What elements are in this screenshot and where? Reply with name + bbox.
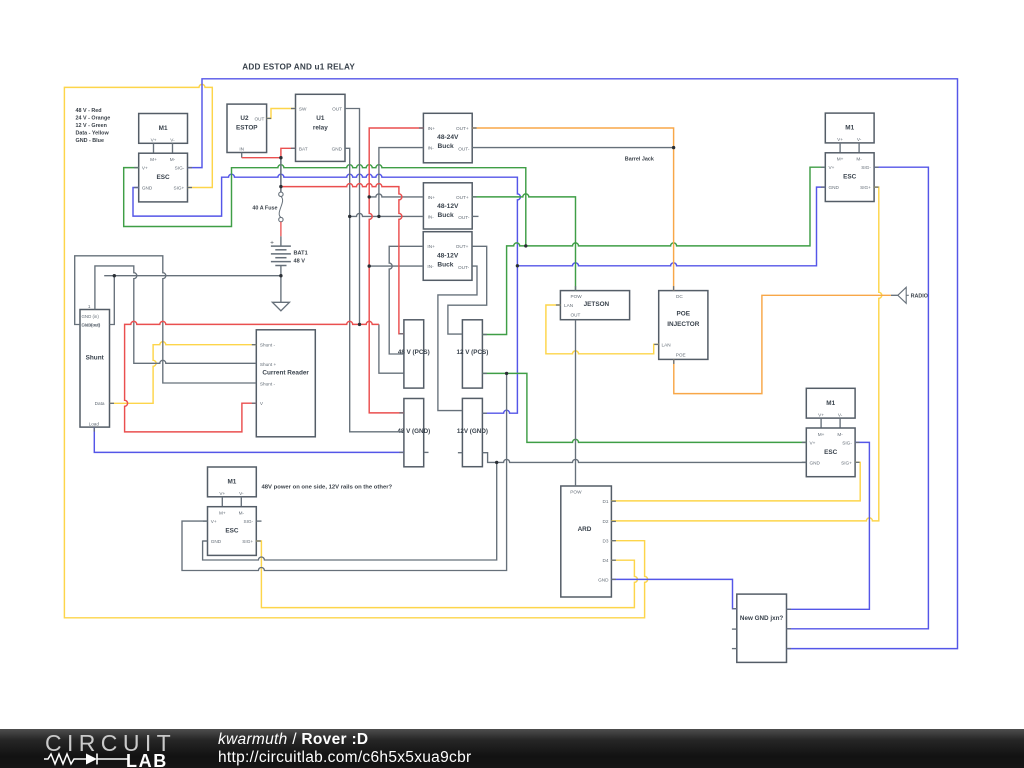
wire blue New GND jxn to ESC bottom-right SIG-: [787, 442, 870, 609]
svg-text:SIG-: SIG-: [861, 165, 871, 170]
svg-text:48-12V: 48-12V: [437, 203, 459, 210]
svg-text:V+: V+: [837, 137, 843, 142]
svg-text:SIG-: SIG-: [842, 440, 852, 445]
svg-text:40 A Fuse: 40 A Fuse: [252, 206, 277, 212]
svg-text:LAN: LAN: [564, 303, 573, 308]
svg-text:M+: M+: [837, 157, 844, 162]
wire U1 GND down to 48V GND strip: [345, 148, 404, 432]
svg-text:POW: POW: [570, 490, 582, 495]
svg-text:48-24V: 48-24V: [437, 134, 459, 141]
wire red U2 IN to U1 BAT: [242, 148, 296, 157]
CircuitLab logo: [45, 729, 225, 768]
stub New GND jxn left 3: [732, 648, 737, 650]
wire JETSON OUT to ARD POW: [575, 320, 577, 486]
wire buck2 IN- to 48V column: [369, 265, 423, 267]
svg-text:GND: GND: [598, 577, 609, 582]
wire red rail corner down to 48V PCS pin3: [379, 324, 404, 373]
shunt: [80, 310, 110, 428]
wire yellow ESC bottom-right SIG+ to ARD D1: [611, 462, 860, 501]
svg-text:GND - Blue: GND - Blue: [76, 138, 104, 144]
svg-text:M1: M1: [845, 125, 854, 132]
wire blue ESC1 GND main ground rail: [133, 174, 520, 266]
svg-text:Buck: Buck: [438, 212, 454, 219]
svg-text:GND: GND: [211, 539, 222, 544]
svg-text:48 V (PCS): 48 V (PCS): [398, 349, 430, 356]
svg-text:V+: V+: [142, 166, 148, 171]
wire 48-24V IN- to gnd column: [379, 148, 424, 217]
svg-text:IN-: IN-: [427, 264, 434, 269]
wire buck2 OUT+ to 12V PCS strip: [448, 246, 487, 334]
wire shunt right pin to battery rail: [110, 276, 115, 325]
wire U1 OUT down to 48V rail: [345, 109, 360, 325]
svg-text:OUT: OUT: [571, 312, 581, 317]
svg-text:M1: M1: [227, 479, 236, 486]
svg-text:OUT-: OUT-: [458, 146, 470, 151]
svg-text:Data(out): Data(out): [82, 322, 101, 327]
svg-text:IN-: IN-: [428, 146, 435, 151]
battery BAT1 48V: [280, 236, 282, 246]
svg-text:SIG+: SIG+: [242, 539, 253, 544]
svg-text:BAT1: BAT1: [294, 250, 308, 256]
svg-text:12 V (PCS): 12 V (PCS): [456, 349, 488, 356]
svg-text:OUT+: OUT+: [456, 244, 469, 249]
48V positive strip: [404, 320, 424, 388]
buck converter 48-12V #1: [423, 183, 472, 229]
svg-text:IN+: IN+: [428, 195, 436, 200]
wire fuse feed from battery dot: [280, 158, 282, 192]
wire orange POE out to RADIO: [674, 295, 891, 393]
wire 12V GND rail down to ESC bottom-left GND: [203, 462, 497, 560]
ESC M1 top-right: [825, 153, 874, 202]
svg-text:Buck: Buck: [437, 262, 453, 269]
svg-text:Data: Data: [95, 401, 105, 406]
svg-text:M-: M-: [239, 511, 245, 516]
svg-text:RADIO: RADIO: [911, 294, 928, 300]
ground symbol: [280, 276, 282, 303]
wire battery negative rail: [104, 275, 281, 277]
wire blue Shunt Load to 48V GND strip: [94, 427, 404, 452]
wire blue ESC1 SIG- top border to New GND jxn: [188, 79, 958, 649]
svg-text:V-: V-: [239, 491, 244, 496]
svg-text:V+: V+: [829, 165, 835, 170]
svg-text:OUT+: OUT+: [456, 126, 469, 131]
wire red 48-24V IN+ feed column: [369, 128, 423, 413]
ESC M1 bottom-right: [806, 428, 855, 477]
wire yellow ESC3 SIG+ to ARD D4: [256, 541, 637, 608]
ARD arduino: [561, 486, 612, 597]
svg-text:Current Reader: Current Reader: [262, 370, 309, 377]
svg-text:V-: V-: [857, 137, 862, 142]
ESTOP U2: [227, 104, 267, 152]
svg-text:Data - Yellow: Data - Yellow: [76, 131, 110, 137]
buck converter 48-12V #2: [423, 232, 472, 281]
svg-text:ESC: ESC: [225, 528, 239, 535]
svg-text:GND: GND: [810, 460, 821, 465]
svg-text:SIG+: SIG+: [860, 185, 871, 190]
12V ground strip: [462, 398, 482, 466]
svg-text:OUT-: OUT-: [458, 215, 470, 220]
M1 top-left motor leads: [154, 143, 173, 153]
stub 48V GND strip right: [424, 451, 429, 453]
svg-text:M1: M1: [826, 400, 835, 407]
POE injector: [659, 291, 708, 360]
svg-text:ESTOP: ESTOP: [236, 124, 258, 131]
svg-text:D1: D1: [603, 499, 609, 504]
svg-text:SIG-: SIG-: [243, 519, 253, 524]
svg-text:V+: V+: [219, 491, 225, 496]
svg-text:OUT: OUT: [255, 117, 265, 122]
component terminal stubs: [134, 167, 139, 169]
wire 48V row to buck1 IN+: [369, 194, 423, 197]
svg-text:relay: relay: [313, 124, 328, 131]
wire blue ground rail to 12V GND strip: [482, 266, 517, 413]
svg-text:+: +: [270, 240, 274, 247]
svg-text:M-: M-: [837, 432, 843, 437]
stub 12V GND strip left: [458, 452, 463, 454]
svg-text:D3: D3: [603, 539, 609, 544]
svg-text:M-: M-: [170, 157, 176, 162]
svg-text:ARD: ARD: [578, 526, 592, 533]
svg-text:M-: M-: [856, 157, 862, 162]
svg-text:M+: M+: [150, 157, 157, 162]
svg-text:D2: D2: [603, 519, 609, 524]
svg-text:GND: GND: [142, 186, 153, 191]
junction dots: [279, 156, 282, 159]
svg-text:SIG-: SIG-: [175, 166, 185, 171]
wire red Current Reader V supply rail: [125, 321, 379, 432]
svg-text:24 V - Orange: 24 V - Orange: [76, 115, 111, 121]
svg-text:V+: V+: [211, 519, 217, 524]
svg-text:IN+: IN+: [428, 126, 436, 131]
svg-text:V+: V+: [818, 412, 824, 417]
svg-text:ESC: ESC: [843, 174, 857, 181]
svg-text:ESC: ESC: [824, 449, 838, 456]
RADIO antenna: [891, 294, 898, 296]
svg-text:U2: U2: [240, 115, 249, 122]
svg-text:Buck: Buck: [438, 143, 454, 150]
svg-text:48V power on one side, 12V rai: 48V power on one side, 12V rails on the …: [262, 485, 393, 491]
wire buck2 IN+ to 48V PCS strip: [389, 246, 423, 354]
wire 12V rail down to ESC bottom-left V+: [182, 373, 507, 570]
wire blue New GND jxn to ESC top-right SIG-: [787, 167, 929, 629]
svg-text:ADD ESTOP AND u1 RELAY: ADD ESTOP AND u1 RELAY: [242, 63, 355, 72]
wire 48-24V OUT- to barrel jack: [472, 147, 673, 149]
svg-text:LAN: LAN: [662, 343, 671, 348]
JETSON computer: [560, 291, 629, 320]
wire red 48V rail right branch: [281, 184, 404, 334]
motor block M1 top-right M1: [825, 113, 874, 143]
svg-text:48-12V: 48-12V: [437, 252, 459, 259]
wire gnd row to buck1 IN-: [350, 213, 424, 216]
svg-text:SIG+: SIG+: [841, 460, 852, 465]
svg-text:ESC: ESC: [157, 174, 171, 181]
motor block M1 bottom-left M1: [208, 467, 257, 497]
wire yellow JETSON LAN to POE LAN: [546, 305, 659, 354]
svg-text:OUT-: OUT-: [458, 265, 470, 270]
svg-text:12V (GND): 12V (GND): [457, 428, 488, 435]
48V ground strip: [404, 399, 424, 467]
stub ESC3 SIG-: [256, 520, 261, 522]
svg-text:SIG+: SIG+: [173, 186, 184, 191]
svg-text:Shunt: Shunt: [86, 355, 105, 362]
wire green buck1 OUT+ to JETSON POW: [472, 194, 575, 291]
wire buck2 OUT- to 12V GND strip: [438, 266, 477, 411]
svg-text:IN+: IN+: [427, 244, 435, 249]
wire yellow ESC top-right SIG+ to ARD D2: [611, 187, 881, 521]
svg-text:INJECTOR: INJECTOR: [667, 321, 700, 328]
svg-text:M+: M+: [818, 432, 825, 437]
current reader: [256, 330, 315, 437]
wire blue ground rail to ESC top-right GND: [517, 187, 825, 266]
svg-text:D4: D4: [603, 558, 609, 563]
wire shunt outer loop to Current Reader Shunt- 2: [75, 256, 257, 383]
wire orange 48-24V OUT+ to POE DC: [472, 128, 673, 291]
svg-text:M1: M1: [159, 125, 168, 132]
ESC M1 top-left: [139, 153, 188, 202]
svg-text:Shunt -: Shunt -: [260, 343, 276, 348]
wire yellow Shunt Data to Current Reader Shunt-: [110, 342, 257, 404]
svg-text:Load: Load: [89, 422, 100, 427]
svg-text:Barrel Jack: Barrel Jack: [625, 157, 654, 163]
svg-text:SW: SW: [299, 107, 307, 112]
wire shunt top pin loop to Current Reader Shunt+: [95, 266, 256, 363]
wire green 12V PCS strip to ESC bottom-right V+: [482, 373, 806, 442]
svg-text:JETSON: JETSON: [584, 301, 610, 308]
svg-text:BAT: BAT: [299, 146, 308, 151]
svg-text:GND (in): GND (in): [82, 314, 100, 319]
svg-text:IN-: IN-: [428, 214, 435, 219]
svg-text:12 V - Green: 12 V - Green: [76, 123, 107, 129]
wire yellow ESC1 SIG+ to left border to ARD D3: [64, 84, 647, 617]
svg-text:POE: POE: [677, 311, 691, 318]
wire green 12V PCS strip to ESC top-right V+: [482, 167, 825, 334]
M1 bottom-left motor leads: [222, 497, 241, 507]
M1 bottom-right motor leads: [821, 418, 840, 428]
wire blue ARD GND to New GND jxn: [611, 579, 736, 608]
svg-text:GND: GND: [829, 185, 840, 190]
svg-text:U1: U1: [316, 115, 325, 122]
wire 12V GND rail to ESC bottom-right GND: [482, 453, 806, 463]
svg-text:POW: POW: [571, 294, 583, 299]
svg-text:DC: DC: [676, 294, 683, 299]
wire yellow U2 OUT to U1 SW: [267, 109, 296, 119]
relay U1: [296, 94, 346, 161]
svg-text:GND: GND: [332, 146, 343, 151]
svg-text:V-: V-: [838, 412, 843, 417]
M1 top-right motor leads: [840, 143, 859, 153]
svg-text:IN: IN: [239, 146, 244, 151]
fuse F1 40A: [280, 158, 282, 192]
ESC M1 bottom-left: [208, 507, 257, 556]
stub New GND jxn left 2: [732, 628, 737, 630]
motor block M1 top-left M1: [139, 114, 188, 144]
svg-text:POE: POE: [676, 352, 686, 357]
buck converter 48-24V: [423, 113, 472, 163]
svg-text:1: 1: [88, 304, 91, 309]
svg-text:OUT: OUT: [332, 107, 342, 112]
stub U2 IN: [241, 153, 243, 158]
svg-text:Shunt -: Shunt -: [260, 382, 276, 387]
svg-text:Shunt +: Shunt +: [260, 362, 277, 367]
svg-text:V+: V+: [810, 440, 816, 445]
svg-text:48 V: 48 V: [294, 259, 306, 265]
svg-text:M+: M+: [219, 511, 226, 516]
svg-text:V+: V+: [151, 138, 157, 143]
motor block M1 bottom-right M1: [806, 388, 855, 418]
svg-text:V-: V-: [170, 138, 175, 143]
stub buck1 OUT-: [472, 215, 478, 217]
12V positive strip: [462, 320, 482, 388]
svg-text:New GND jxn?: New GND jxn?: [740, 615, 784, 622]
wire green ESC1 V+ 48V loop to mid rail: [124, 165, 526, 246]
svg-text:OUT+: OUT+: [456, 195, 469, 200]
svg-text:48 V - Red: 48 V - Red: [76, 108, 102, 114]
new GND junction: [737, 594, 787, 662]
